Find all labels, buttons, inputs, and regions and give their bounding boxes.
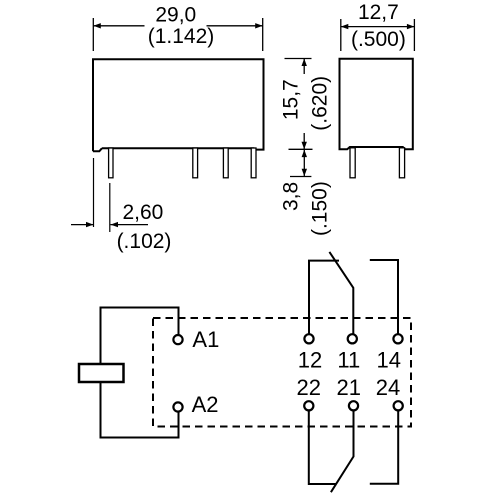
switch blade bottom pole <box>331 411 354 492</box>
svg-text:2,60: 2,60 <box>122 201 163 224</box>
svg-text:(.150): (.150) <box>309 181 332 236</box>
dimension 2,60 arrows <box>71 224 148 226</box>
svg-text:(1.142): (1.142) <box>148 25 215 48</box>
dashed relay outline box <box>153 318 411 427</box>
relay body end view <box>340 59 413 150</box>
terminal 14 <box>393 334 402 343</box>
dimension 15,7 vertical line with arrows <box>303 59 305 150</box>
terminal 11 <box>348 334 357 343</box>
svg-text:11: 11 <box>337 347 360 372</box>
terminal 21 <box>349 401 358 410</box>
terminal 22 <box>304 401 313 410</box>
svg-text:14: 14 <box>377 347 401 372</box>
svg-text:15,7: 15,7 <box>279 79 302 120</box>
pin 1 (side view) <box>109 148 113 178</box>
coil wire loop <box>101 308 179 438</box>
terminal 12 <box>304 334 313 343</box>
wire contact 24 <box>370 411 398 484</box>
svg-text:21: 21 <box>337 375 361 400</box>
svg-text:12,7: 12,7 <box>358 1 399 24</box>
dimension 29,0 extension lines <box>93 18 262 51</box>
dimension 12,7 extension lines <box>341 19 415 51</box>
dimension 3,8 seating plane tick <box>289 148 313 150</box>
wire contact 14 <box>370 260 398 334</box>
pin 3 (side view) <box>223 148 228 178</box>
terminal A1 <box>173 335 182 344</box>
pin 2 (side view) <box>193 148 198 178</box>
dimension 3,8 vertical line with arrows <box>303 149 305 176</box>
dimension 15,7 top tick <box>285 58 312 60</box>
dimension 12,7 line with arrows <box>341 26 415 28</box>
terminal 24 <box>394 401 403 410</box>
wire contact 12 <box>309 261 339 334</box>
pin right (end view) <box>399 148 404 178</box>
svg-text:24: 24 <box>376 375 400 400</box>
terminal A2 <box>173 402 182 411</box>
dimension 3,8 bottom tick <box>290 176 311 178</box>
pin left (end view) <box>350 148 355 178</box>
svg-text:A1: A1 <box>192 327 219 352</box>
relay body side view <box>93 59 264 151</box>
svg-text:12: 12 <box>298 347 322 372</box>
svg-text:22: 22 <box>297 375 321 400</box>
svg-text:A2: A2 <box>192 392 219 417</box>
dimension 2,60 extension lines <box>94 158 110 232</box>
coil <box>79 364 124 382</box>
wire contact 22 <box>309 411 337 484</box>
switch blade top pole <box>329 252 353 334</box>
svg-text:29,0: 29,0 <box>155 3 196 26</box>
svg-text:(.102): (.102) <box>117 230 172 253</box>
svg-text:(.620): (.620) <box>309 76 332 131</box>
svg-text:(.500): (.500) <box>351 28 406 51</box>
dimension 29,0 line with arrows <box>93 25 262 27</box>
pin 4 (side view) <box>251 148 256 178</box>
svg-text:3,8: 3,8 <box>279 182 302 211</box>
